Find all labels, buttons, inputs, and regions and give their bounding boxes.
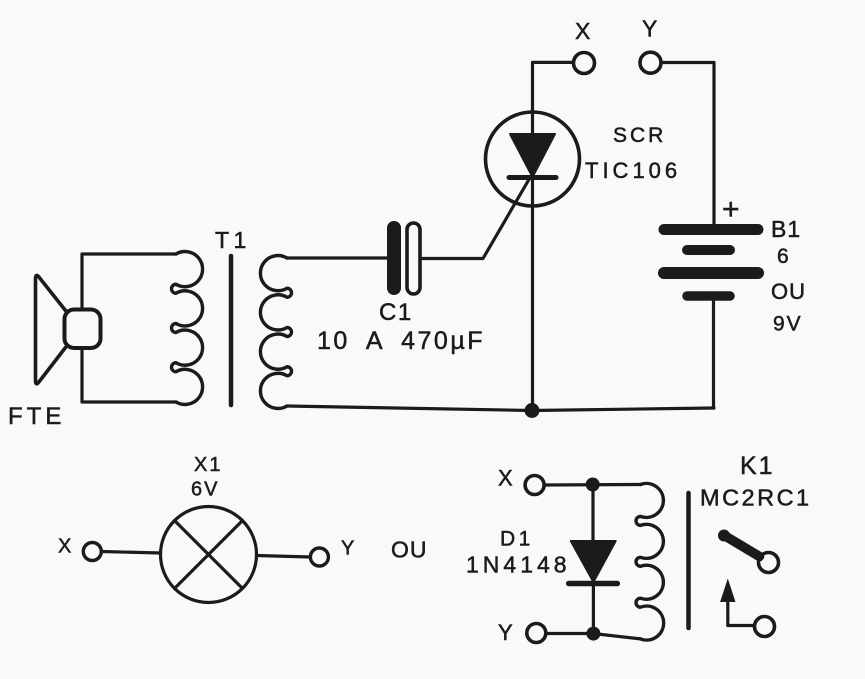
wire lamp left	[101, 552, 160, 554]
lamp X1 cross line 1	[175, 521, 243, 589]
wire lamp right	[257, 556, 311, 558]
svg-text:C1: C1	[379, 299, 413, 326]
SCR triangle	[510, 134, 555, 177]
SCR anode wire up to X	[533, 62, 574, 140]
svg-text:Y: Y	[642, 16, 657, 42]
wire speaker top to transformer primary	[82, 254, 176, 310]
diode D1 anode wire	[591, 492, 594, 542]
wire Y to battery positive	[661, 63, 714, 226]
diode D1 cathode wire	[592, 586, 595, 627]
junction node relay top	[586, 478, 600, 492]
junction node relay bottom	[586, 627, 600, 641]
SCR cathode wire down to bus	[531, 180, 534, 409]
terminal X lamp	[83, 543, 101, 561]
capacitor C1 right plate	[407, 223, 420, 294]
svg-text:TIC106: TIC106	[585, 158, 681, 183]
bottom bus wire	[287, 406, 714, 411]
relay K1 contact terminal upper	[759, 553, 779, 573]
terminal Y top	[640, 52, 661, 73]
diode D1 cathode bar	[569, 581, 618, 587]
transformer T1 secondary winding	[260, 256, 291, 409]
battery B1 plate 1 long	[664, 224, 758, 235]
diode D1 triangle	[571, 541, 616, 582]
wire secondary top to capacitor C1	[287, 256, 386, 259]
speaker FTE cone	[36, 275, 66, 383]
svg-text:Y: Y	[341, 538, 354, 560]
svg-text:D1: D1	[500, 528, 534, 551]
terminal X relay	[525, 476, 544, 495]
junction node bottom bus	[525, 403, 540, 418]
svg-text:+: +	[722, 193, 740, 226]
battery B1 plate 4 short	[687, 291, 730, 301]
relay K1 coil	[636, 483, 664, 640]
wire capacitor C1 to SCR gate	[420, 179, 530, 259]
svg-text:OU: OU	[391, 537, 428, 563]
SCR U1 envelope circle	[486, 112, 580, 206]
wire speaker bottom to transformer primary	[82, 348, 176, 402]
svg-text:B1: B1	[771, 216, 801, 242]
lamp X1 cross line 2	[175, 521, 243, 589]
svg-text:OU: OU	[771, 279, 806, 304]
relay K1 contact arm	[724, 535, 760, 557]
svg-text:1N4148: 1N4148	[466, 552, 571, 578]
svg-text:X: X	[58, 536, 71, 558]
svg-text:X: X	[498, 466, 513, 491]
wire relay bottom	[546, 634, 641, 639]
wire battery negative to bus	[712, 296, 715, 408]
wire relay top	[544, 483, 640, 487]
battery B1 plate 2 short	[687, 245, 730, 255]
relay K1 contact terminal lower	[755, 617, 775, 637]
relay K1 actuation arrow stem	[728, 595, 755, 626]
lamp X1 bulb circle	[161, 507, 257, 603]
svg-text:9V: 9V	[773, 313, 803, 336]
svg-text:T1: T1	[215, 227, 251, 253]
svg-text:Y: Y	[498, 620, 513, 645]
battery B1 plate 3 long	[664, 267, 758, 279]
svg-text:6: 6	[777, 245, 789, 268]
svg-text:K1: K1	[740, 452, 775, 480]
capacitor C1 left plate	[387, 228, 401, 288]
terminal Y lamp	[310, 548, 328, 566]
transformer T1 primary winding	[172, 252, 203, 405]
svg-text:MC2RC1: MC2RC1	[700, 485, 812, 511]
svg-text:X: X	[575, 18, 590, 44]
svg-text:10 A 470µF: 10 A 470µF	[317, 327, 485, 355]
terminal Y relay	[527, 624, 546, 643]
svg-text:SCR: SCR	[613, 124, 666, 147]
svg-text:FTE: FTE	[8, 403, 65, 430]
transformer T1 core	[229, 256, 234, 405]
relay K1 contact arm pivot blob	[718, 530, 730, 542]
relay K1 actuation arrow head	[720, 579, 735, 603]
svg-text:X1: X1	[194, 454, 222, 476]
SCR cathode bar	[509, 175, 556, 180]
relay K1 core bar	[686, 493, 691, 628]
speaker FTE magnet	[65, 310, 101, 349]
svg-text:6V: 6V	[191, 479, 219, 501]
terminal X top	[574, 53, 595, 74]
